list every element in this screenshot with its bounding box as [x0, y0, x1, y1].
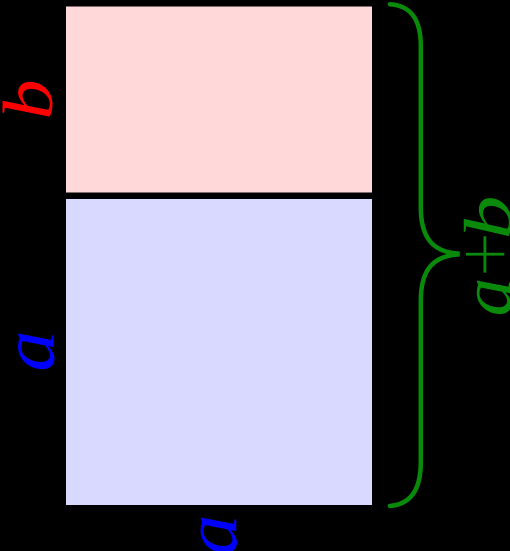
svg-text:a: a [448, 278, 510, 317]
svg-text:a: a [170, 514, 253, 551]
svg-text:b: b [450, 196, 510, 240]
svg-text:b: b [0, 79, 68, 119]
svg-text:a: a [0, 330, 71, 371]
